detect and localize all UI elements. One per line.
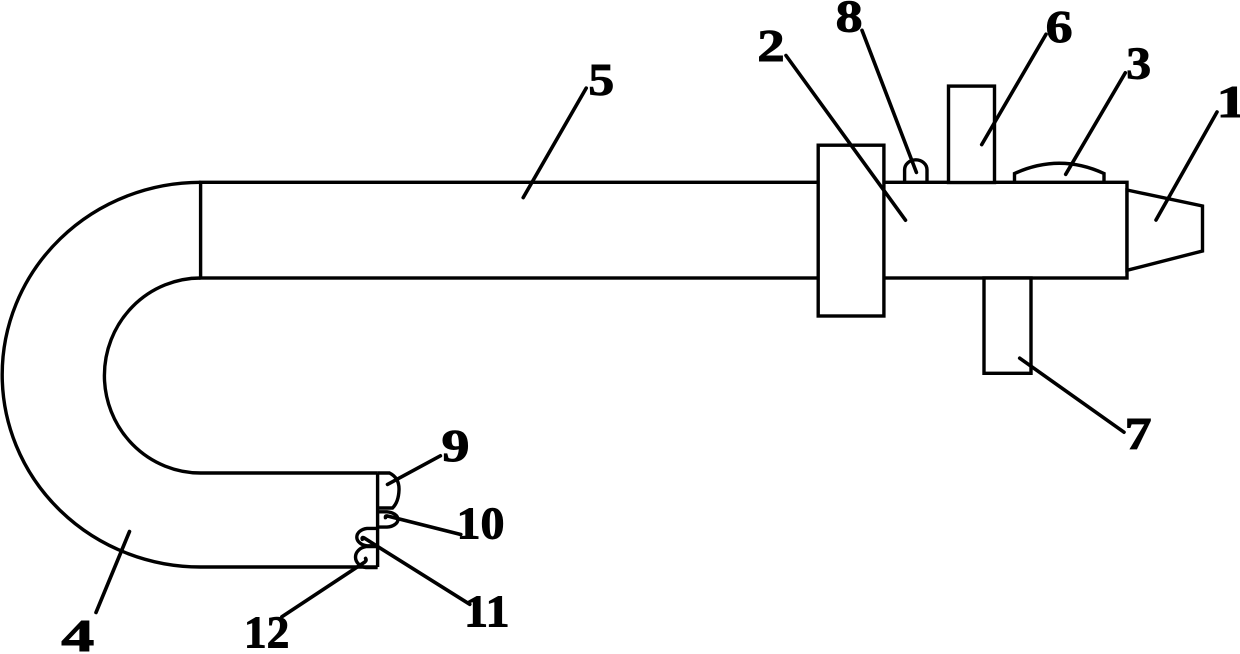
leader line 7	[1020, 358, 1124, 432]
curved tube section 4 inner wall (J-bend inside arc + upper wall of return leg)	[104, 278, 377, 473]
leader line 1	[1156, 112, 1217, 220]
bump 10 (small tongue on outside of end cap)	[378, 512, 398, 527]
top port 6 (vertical rectangular tube on top)	[949, 86, 995, 182]
leader line 9	[388, 456, 441, 485]
ring 8 (small omega loop on top of barrel)	[905, 160, 927, 184]
leader line 11 (with end hook)	[362, 538, 470, 605]
svg-text:5: 5	[588, 55, 614, 105]
leader line 3	[1066, 73, 1126, 175]
bump 12 (lower tongue inside end cap)	[356, 547, 378, 568]
svg-text:4: 4	[61, 611, 94, 654]
svg-text:2: 2	[757, 21, 785, 71]
leader line 12 (with end hook)	[282, 558, 366, 616]
straight tube section 5 (main horizontal barrel)	[201, 182, 1127, 278]
leader line 5	[523, 88, 586, 198]
curved tube section 4 outer wall (J-bend outside arc + lower wall)	[2, 182, 377, 567]
nozzle tip 1 (tapered outlet at right end)	[1127, 190, 1203, 270]
svg-text:3: 3	[1126, 39, 1151, 89]
bump 9 (large scallop on outside of end cap)	[378, 473, 399, 508]
dome 3 (low arched cap on top of barrel)	[1015, 163, 1105, 183]
svg-text:12: 12	[244, 608, 290, 654]
collar block 2 (sliding sleeve on barrel)	[818, 145, 884, 316]
bottom port 7 (vertical rectangular tube below)	[984, 278, 1031, 373]
svg-text:8: 8	[836, 0, 863, 42]
svg-text:11: 11	[464, 587, 510, 637]
svg-text:10: 10	[457, 498, 505, 548]
svg-text:7: 7	[1125, 409, 1152, 459]
leader line 2	[786, 56, 906, 221]
leader line 10 (with end hook)	[385, 516, 460, 535]
leader line 4	[96, 532, 130, 613]
svg-text:6: 6	[1046, 2, 1073, 52]
svg-text:1: 1	[1216, 77, 1240, 127]
bump 11 (small tongue inside end cap)	[357, 528, 378, 545]
leader line 8	[862, 30, 916, 172]
svg-text:9: 9	[442, 421, 470, 471]
tube end cap (vertical mouth edge of return leg)	[376, 473, 379, 567]
leader line 6	[982, 34, 1046, 144]
